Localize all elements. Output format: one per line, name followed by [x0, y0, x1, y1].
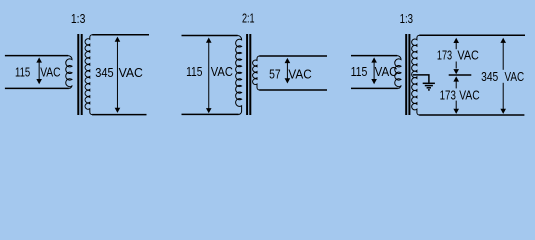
svg-text:1:3: 1:3 [71, 12, 86, 26]
svg-text:1:3: 1:3 [400, 13, 413, 27]
svg-text:VAC: VAC [288, 67, 311, 82]
svg-text:345: 345 [95, 65, 114, 80]
svg-text:VAC: VAC [119, 66, 143, 80]
svg-text:115: 115 [351, 64, 368, 79]
svg-text:57: 57 [269, 67, 281, 81]
svg-text:115: 115 [15, 66, 30, 80]
svg-text:VAC: VAC [459, 88, 480, 102]
svg-text:115: 115 [186, 65, 203, 79]
svg-text:VAC: VAC [40, 65, 61, 79]
svg-text:173: 173 [437, 49, 452, 63]
svg-text:345: 345 [481, 70, 499, 84]
svg-text:173: 173 [440, 89, 456, 103]
svg-text:VAC: VAC [505, 71, 525, 84]
svg-text:VAC: VAC [457, 48, 479, 63]
svg-text:2:1: 2:1 [242, 12, 255, 26]
svg-text:VAC: VAC [211, 64, 233, 79]
svg-text:VAC: VAC [375, 65, 398, 80]
